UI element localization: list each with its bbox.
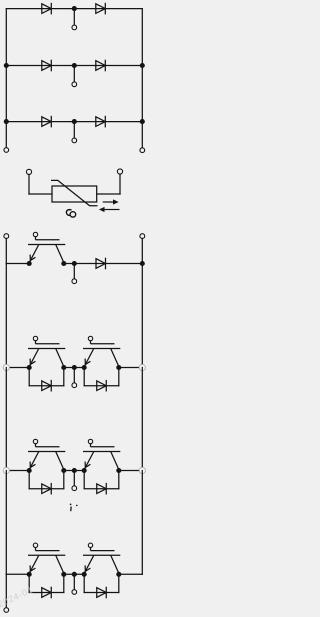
transistor Q2A gate terminal (33, 439, 37, 443)
diode D3 (42, 60, 52, 72)
node row 2 midpoint junction (72, 63, 77, 68)
transistor Q3A gate lead (35, 547, 37, 550)
transistor Q_chopper collector (56, 245, 64, 263)
terminal phase 1 output (72, 383, 77, 388)
terminal thermistor right (117, 169, 122, 174)
transistor Q1A gate lead (35, 341, 37, 344)
terminal AC phase 3 (72, 138, 77, 143)
transistor Q2B collector (111, 452, 119, 470)
transistor Q2A gate lead (35, 444, 37, 447)
wire loop left leg at x=84.2 (83, 574, 85, 592)
wire stub down from node (73, 368, 75, 383)
node Q1A emitter (27, 365, 32, 370)
wire phase 3 bus left (6, 573, 29, 575)
transistor Q2B body bar (83, 451, 120, 453)
transistor Q_chopper gate lead (35, 237, 37, 240)
transistor Q2A collector (56, 452, 64, 470)
diode D6 (96, 116, 106, 128)
diode D5 (42, 116, 52, 128)
wire loop bottom (84, 592, 119, 594)
wire phase 2 bus right (119, 470, 143, 472)
transistor Q3B gate lead (90, 547, 92, 550)
terminal AC phase 1 (72, 25, 77, 30)
wire stub down from node (73, 264, 75, 279)
wire left AC rail (5, 9, 7, 148)
terminal plug right rail phase 1 (139, 364, 145, 370)
wire stub down from node (73, 574, 75, 589)
wire left rail D to E (5, 368, 7, 471)
transistor Q2A body bar (28, 451, 65, 453)
thermistor temperature symbol (theta glyph) (66, 210, 75, 217)
terminal plug left rail phase 2 (3, 467, 9, 473)
diode D2B (freewheel) (97, 483, 107, 495)
transistor Q1B gate terminal (88, 336, 92, 340)
transistor Q3A emitter (arrow) (29, 555, 38, 573)
node Q1B emitter (82, 365, 87, 370)
wire loop right leg at x=118.8 (118, 368, 120, 386)
terminal chopper left top (4, 234, 9, 239)
transistor Q1B emitter (arrow) (84, 349, 93, 367)
terminal chopper output (72, 279, 77, 284)
node Q3A emitter (27, 572, 32, 577)
wire stub down from node (73, 471, 75, 486)
node Q1A collector (61, 365, 66, 370)
wire loop right leg at x=63.8 (63, 471, 65, 489)
wire phase 3 bus right (119, 573, 143, 575)
transistor Q_chopper gate bar (36, 239, 60, 241)
node Q2A collector (61, 468, 66, 473)
transistor Q1A gate terminal (33, 336, 37, 340)
wire loop bottom (29, 592, 64, 594)
transistor Q3B body bar (83, 554, 120, 556)
wire right rail D to E (141, 368, 143, 471)
terminal plug right rail phase 2 (139, 467, 145, 473)
terminal AC phase 2 (72, 82, 77, 87)
wire right rail E to F (141, 471, 143, 575)
terminal DC+ output (140, 148, 145, 153)
wire phase 1 bus middle (64, 367, 84, 369)
node Q3B emitter (82, 572, 87, 577)
wire loop left leg at x=29.2 (28, 574, 30, 592)
transistor Q_chopper body bar (28, 244, 65, 246)
junction left rail (4, 119, 9, 124)
junction right rail C (140, 261, 145, 266)
diode D_chopper (96, 258, 106, 270)
transistor Q_chopper gate terminal (33, 232, 37, 236)
wire right AC rail (141, 9, 143, 148)
diode D3A (freewheel) (42, 587, 52, 599)
terminal plug left rail phase 1 (3, 364, 9, 370)
wire loop bottom (84, 488, 119, 490)
transistor Q_chopper emitter (arrow) (29, 245, 38, 263)
wire thermistor left lead h (29, 193, 52, 195)
junction right rail (140, 63, 145, 68)
transistor Q1B body bar (83, 348, 120, 350)
wire loop left leg at x=84.2 (83, 471, 85, 489)
terminal chopper right top (140, 234, 145, 239)
node Q2A emitter (27, 468, 32, 473)
node chopper emitter (27, 261, 32, 266)
terminal phase 3 output (72, 590, 77, 595)
transistor Q1A collector (56, 349, 64, 367)
thermistor R_th body (52, 186, 97, 202)
transistor Q3A gate bar (36, 550, 60, 552)
diode D1 (42, 3, 52, 15)
diode D1B (freewheel) (97, 380, 107, 392)
wire phase 1 bus right (119, 367, 143, 369)
wire loop left leg at x=29.2 (28, 471, 30, 489)
transistor Q3B gate bar (91, 550, 115, 552)
transistor Q2B gate terminal (88, 439, 92, 443)
wire left rail C to D (5, 264, 7, 368)
node Q2B collector (116, 468, 121, 473)
terminal phase 2 output (72, 486, 77, 491)
wire thermistor right lead v (119, 174, 121, 194)
transistor Q3A body bar (28, 554, 65, 556)
wire phase 3 bus middle (64, 573, 84, 575)
arrow heat flow left (99, 207, 120, 212)
transistor Q3A gate terminal (33, 543, 37, 547)
wire loop left leg at x=29.2 (28, 368, 30, 386)
wire thermistor right lead h (97, 193, 120, 195)
node phase 3 output junction (72, 572, 77, 577)
wire right rail C to D (141, 264, 143, 368)
wire bus right segment C (64, 263, 143, 265)
transistor Q2B gate bar (91, 446, 115, 448)
wire left rail below phase 3 (5, 574, 7, 607)
terminal bottom left (4, 608, 9, 613)
transistor Q2A emitter (arrow) (29, 452, 38, 470)
diode D3B (freewheel) (97, 587, 107, 599)
transistor Q1A body bar (28, 348, 65, 350)
wire rectifier row 1 (6, 8, 142, 10)
diode D4 (96, 60, 106, 72)
node row 3 midpoint junction (72, 119, 77, 124)
node Q3A collector (61, 572, 66, 577)
transistor Q2B emitter (arrow) (84, 452, 93, 470)
wire AC terminal stub row 1 (73, 9, 75, 25)
wire left rail E to F (5, 471, 7, 575)
transistor Q1A gate bar (36, 343, 60, 345)
diode D2A (freewheel) (42, 483, 52, 495)
wire loop left leg at x=84.2 (83, 368, 85, 386)
wire phase 1 bus left (6, 367, 29, 369)
terminal thermistor left (26, 169, 31, 174)
diode D2 (96, 3, 106, 15)
transistor Q3B gate terminal (88, 543, 92, 547)
transistor Q2A gate bar (36, 446, 60, 448)
thermistor R_th diagonal stroke (51, 180, 98, 205)
transistor Q1A emitter (arrow) (29, 349, 38, 367)
node chopper output junction (72, 261, 77, 266)
node phase 1 output junction (72, 365, 77, 370)
wire right rail into chopper (141, 238, 143, 263)
node Q3B collector (116, 572, 121, 577)
transistor Q1B gate bar (91, 343, 115, 345)
wire phase 2 bus left (6, 470, 29, 472)
wire left rail into chopper (5, 238, 7, 263)
node Q1B collector (116, 365, 121, 370)
junction left rail (4, 63, 9, 68)
wire loop bottom (29, 488, 64, 490)
wire phase 2 bus middle (64, 470, 84, 472)
junction right rail (140, 119, 145, 124)
wire loop right leg at x=63.8 (63, 574, 65, 592)
wire AC terminal stub row 2 (73, 66, 75, 82)
node row 1 midpoint junction (72, 6, 77, 11)
wire rectifier row 3 (6, 121, 142, 123)
transistor Q1B gate lead (90, 341, 92, 344)
transistor Q1B collector (111, 349, 119, 367)
node phase 2 output junction (72, 468, 77, 473)
transistor Q3B collector (111, 555, 119, 573)
transistor Q3A collector (56, 555, 64, 573)
arrow heat flow right (103, 199, 119, 204)
transistor Q2B gate lead (90, 444, 92, 447)
wire thermistor left lead v (28, 175, 30, 195)
node Q2B emitter (82, 468, 87, 473)
terminal DC- output (4, 148, 9, 153)
continuation marker (repeated phases) (70, 504, 78, 512)
wire AC terminal stub row 3 (73, 122, 75, 138)
wire loop bottom (29, 385, 64, 387)
wire loop right leg at x=118.8 (118, 471, 120, 489)
node chopper collector (61, 261, 66, 266)
wire rectifier row 2 (6, 65, 142, 67)
wire bus left segment C (6, 263, 29, 265)
diode D1A (freewheel) (42, 380, 52, 392)
wire loop right leg at x=63.8 (63, 368, 65, 386)
transistor Q3B emitter (arrow) (84, 555, 93, 573)
wire loop right leg at x=118.8 (118, 574, 120, 592)
wire loop bottom (84, 385, 119, 387)
